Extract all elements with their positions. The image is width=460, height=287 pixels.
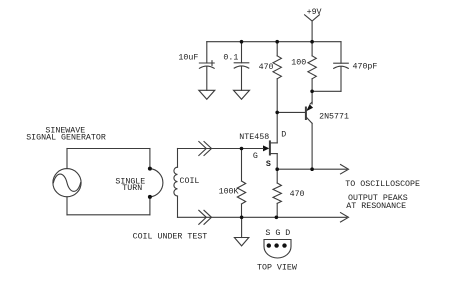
- generator loop wires: [66, 149, 68, 169]
- svg-text:S: S: [266, 160, 271, 169]
- capacitor 0.1 top plate: [234, 62, 249, 64]
- transistor Q1 emitter arrow: [306, 104, 313, 111]
- single turn loop arc: [150, 169, 163, 197]
- capacitor 10uF top plate with +: [199, 62, 214, 64]
- node dot single turn top: [148, 167, 152, 171]
- transistor U1 gate arrow: [263, 145, 269, 151]
- node dot single turn bottom: [148, 195, 152, 199]
- ground under 10uF: [199, 90, 215, 99]
- sinewave generator circle: [53, 169, 81, 197]
- svg-text:10uF: 10uF: [178, 54, 198, 63]
- svg-text:COIL UNDER TEST: COIL UNDER TEST: [133, 233, 208, 242]
- arrow bottom line: [341, 213, 349, 222]
- capacitor 0.1 lead from bus: [241, 42, 243, 63]
- svg-text:D: D: [281, 131, 286, 140]
- chevron arrows on bottom wire: [199, 210, 207, 224]
- wire 470pF bottom: [340, 67, 342, 91]
- wire output line to oscilloscope: [277, 168, 346, 170]
- sine symbol: [53, 174, 80, 191]
- capacitor 10uF lead from bus: [206, 42, 208, 63]
- svg-text:100: 100: [291, 58, 306, 67]
- wire bottom return line: [178, 216, 347, 218]
- resistor 470 (bottom): [276, 169, 278, 183]
- transistor Q1 collector: [306, 117, 312, 124]
- package outline TOP VIEW: [264, 240, 291, 259]
- arrow to oscilloscope: [341, 165, 349, 174]
- transistor U1 channel bar: [269, 141, 271, 154]
- wire 0.1 to ground: [241, 67, 243, 91]
- transistor Q1 base wire: [277, 111, 306, 113]
- capacitor 470pF top plate: [334, 62, 349, 64]
- package pin dots: [267, 243, 271, 247]
- svg-text:S G D: S G D: [265, 229, 290, 238]
- svg-text:2N5771: 2N5771: [319, 112, 349, 121]
- transistor Q1 2N5771 emitter wire: [311, 91, 313, 104]
- transistor U1 source wire: [270, 153, 277, 155]
- svg-text:470: 470: [290, 190, 305, 199]
- power +9V arrow symbol: [305, 15, 320, 21]
- capacitor 10uF curved plate: [199, 66, 214, 68]
- wire gate line from coil top: [242, 148, 264, 150]
- svg-text:100K: 100K: [219, 187, 239, 196]
- wire 10uF to ground: [206, 67, 208, 91]
- resistor 470 (top): [276, 42, 278, 56]
- capacitor 0.1 curved plate: [234, 66, 249, 68]
- svg-text:470: 470: [259, 63, 274, 72]
- wire top supply bus: [207, 41, 341, 43]
- capacitor 470pF curved plate: [334, 66, 349, 68]
- svg-text:SIGNAL GENERATOR: SIGNAL GENERATOR: [26, 134, 106, 143]
- svg-text:TOP VIEW: TOP VIEW: [257, 263, 297, 272]
- svg-text:AT RESONANCE: AT RESONANCE: [346, 202, 406, 211]
- transistor Q1 base bar: [305, 108, 307, 120]
- ground below bottom line: [241, 217, 243, 237]
- chevron arrows on top wire: [199, 142, 207, 156]
- svg-text:TURN: TURN: [122, 184, 142, 193]
- coil under test loop: [178, 148, 242, 150]
- resistor 100K: [241, 149, 243, 182]
- svg-text:TO OSCILLOSCOPE: TO OSCILLOSCOPE: [345, 180, 420, 189]
- svg-text:COIL: COIL: [180, 177, 200, 186]
- ground under 0.1: [234, 90, 250, 99]
- svg-text:NTE458: NTE458: [239, 133, 269, 142]
- wire +9V to bus: [311, 21, 313, 42]
- resistor 100: [311, 42, 313, 56]
- svg-text:G: G: [253, 152, 258, 161]
- transistor U1 NTE458 JFET drain wire: [276, 112, 278, 142]
- svg-text:0.1: 0.1: [223, 54, 238, 63]
- capacitor 470pF branch from bus right end: [340, 42, 342, 64]
- inductor COIL bumps: [174, 167, 178, 196]
- junction dots: [240, 40, 244, 44]
- svg-text:+9V: +9V: [307, 8, 322, 17]
- svg-text:470pF: 470pF: [353, 63, 378, 72]
